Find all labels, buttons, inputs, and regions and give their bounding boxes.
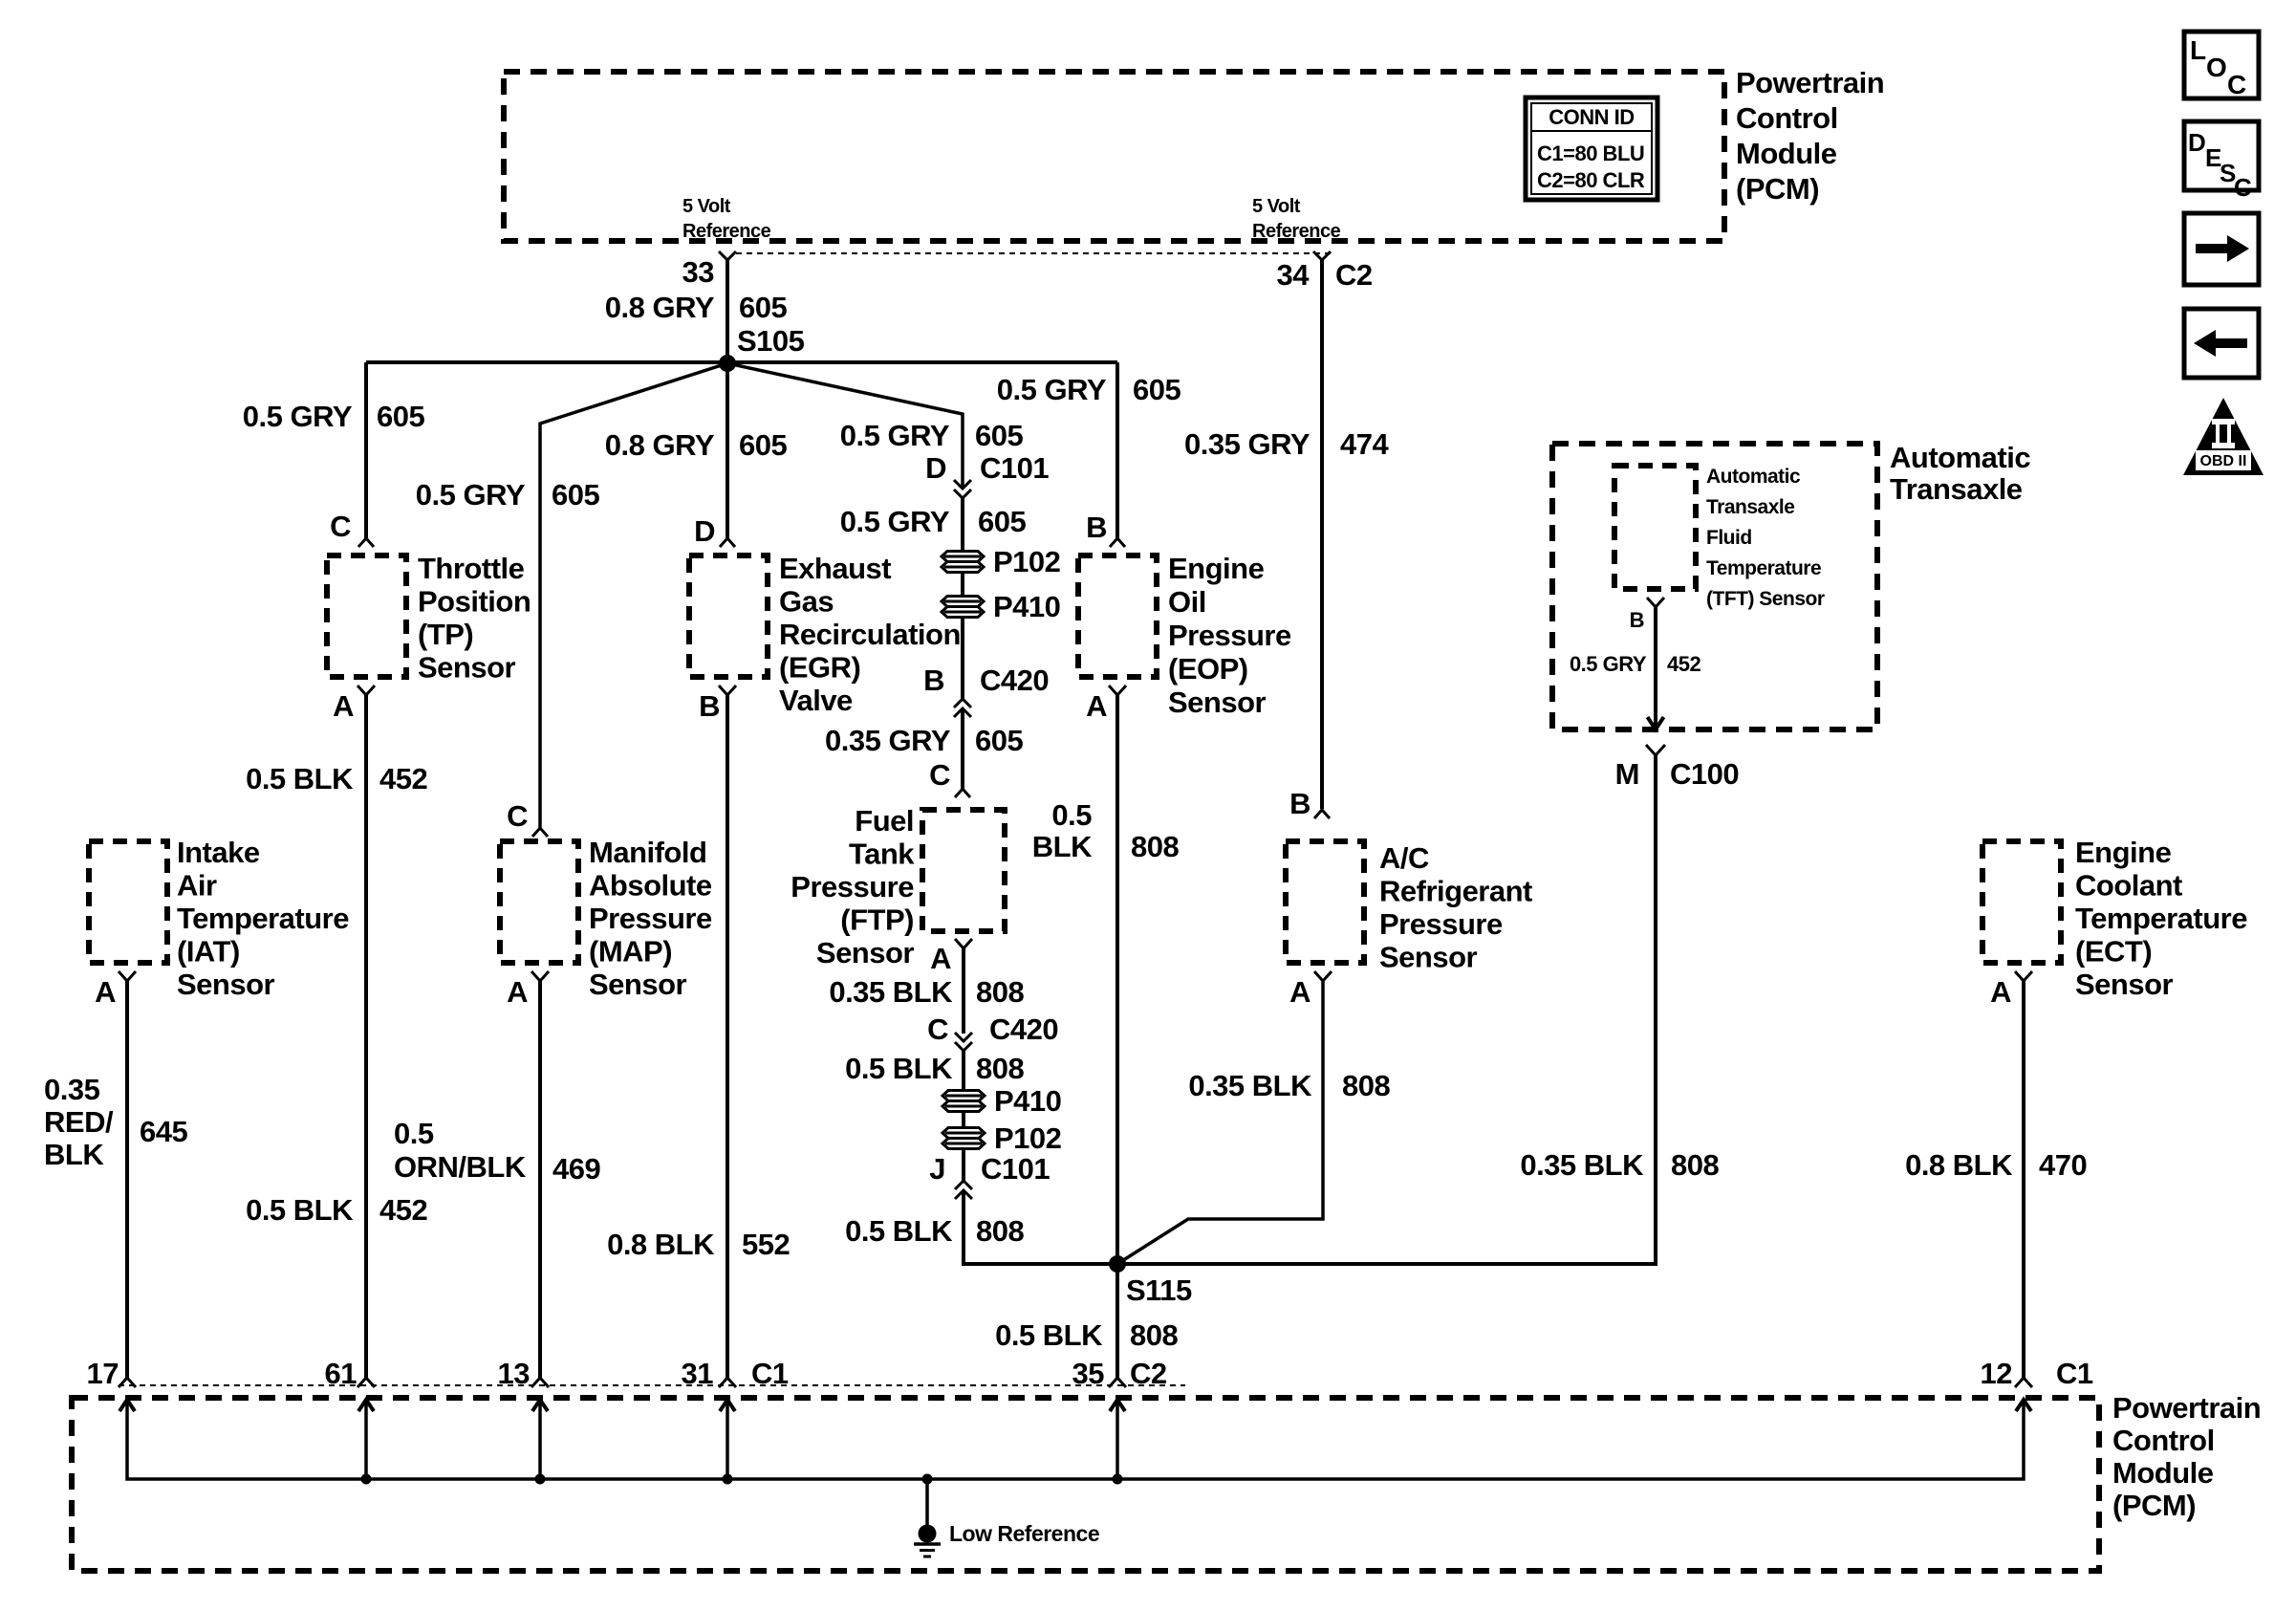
wire P102 to P410	[961, 573, 964, 596]
svg-text:0.5 GRY: 0.5 GRY	[840, 505, 950, 538]
svg-text:Oil: Oil	[1168, 585, 1206, 619]
connector C101 pin D labels	[925, 451, 1049, 485]
svg-text:0.8 BLK: 0.8 BLK	[607, 1228, 715, 1261]
svg-text:(PCM): (PCM)	[2112, 1489, 2196, 1522]
svg-text:Absolute: Absolute	[589, 869, 712, 903]
svg-text:Temperature: Temperature	[177, 902, 349, 935]
svg-text:A: A	[333, 689, 354, 723]
wire 605 S105 horizontal bus	[366, 360, 1117, 364]
svg-text:O: O	[2206, 53, 2226, 82]
svg-text:0.5 BLK: 0.5 BLK	[246, 762, 354, 795]
svg-text:Reference: Reference	[1252, 221, 1341, 242]
svg-text:C: C	[330, 510, 351, 543]
svg-text:D: D	[2188, 128, 2205, 157]
sensor EOP: Engine Oil Pressure Sensor	[1078, 511, 1291, 723]
svg-text:452: 452	[379, 762, 427, 795]
svg-text:B: B	[923, 664, 944, 697]
pin 61 connector fork	[357, 1378, 375, 1387]
svg-text:Air: Air	[177, 869, 217, 903]
svg-text:605: 605	[377, 400, 424, 433]
svg-text:Powertrain: Powertrain	[2112, 1391, 2261, 1425]
svg-text:(FTP): (FTP)	[840, 903, 914, 937]
connector C101 pin J chevrons	[955, 1181, 972, 1199]
svg-text:CONN ID: CONN ID	[1549, 105, 1634, 129]
svg-text:808: 808	[976, 1214, 1024, 1248]
svg-text:Sensor: Sensor	[177, 968, 275, 1001]
ground stub wire	[925, 1479, 929, 1525]
sensor EGR: Exhaust Gas Recirculation Valve	[689, 514, 961, 723]
svg-text:61: 61	[325, 1357, 357, 1390]
pin 12 connector fork	[2015, 1378, 2032, 1387]
svg-text:B: B	[699, 689, 720, 723]
svg-text:Sensor: Sensor	[2075, 968, 2174, 1001]
svg-text:Exhaust: Exhaust	[779, 552, 891, 585]
bottom connector thin dashed line	[119, 1384, 1185, 1386]
wire 808 0.35 BLK S115 to A/C sensor A	[1117, 981, 1390, 1264]
svg-text:C2: C2	[1335, 258, 1373, 292]
svg-text:A: A	[930, 942, 951, 975]
svg-text:OBD II: OBD II	[2200, 453, 2247, 469]
svg-text:0.35 BLK: 0.35 BLK	[1520, 1148, 1644, 1182]
wire 808 0.35 BLK FTP-A to C420	[829, 948, 1024, 1034]
sensor AC: A/C Refrigerant Pressure Sensor	[1286, 787, 1532, 1009]
wire 605 0.5 GRY S105 to MAP sensor	[416, 363, 727, 828]
PCM input arrow pin 13	[532, 1400, 548, 1411]
svg-text:469: 469	[552, 1152, 600, 1186]
icon arrow left	[2184, 309, 2259, 378]
svg-text:L: L	[2190, 35, 2206, 65]
svg-text:C420: C420	[989, 1012, 1058, 1046]
svg-text:13: 13	[498, 1357, 531, 1390]
svg-text:Control: Control	[1736, 101, 1838, 135]
label: 5 Volt Reference (left)	[682, 196, 771, 242]
connector C100 pin M	[1615, 745, 1739, 791]
wire 605 0.8 GRY pin33 to S105	[605, 260, 788, 363]
svg-text:BLK: BLK	[44, 1138, 104, 1171]
svg-text:Pressure: Pressure	[791, 870, 914, 903]
wire P410 to P102 (ground side)	[962, 1112, 965, 1127]
svg-text:Automatic: Automatic	[1706, 466, 1801, 488]
svg-text:(EGR): (EGR)	[779, 651, 860, 685]
wire 474 0.35 GRY pin34 to A/C sensor	[1184, 260, 1389, 809]
svg-text:C: C	[929, 758, 950, 792]
svg-text:Tank: Tank	[849, 838, 915, 871]
svg-text:Sensor: Sensor	[418, 651, 516, 685]
svg-text:33: 33	[682, 255, 715, 289]
pin 31 labels	[682, 1357, 789, 1390]
wire 808 0.5 BLK C420 to P410	[845, 1051, 1024, 1090]
ground symbol Low Reference	[914, 1521, 1099, 1557]
svg-text:Pressure: Pressure	[1168, 619, 1291, 652]
pin 34 labels	[1277, 258, 1373, 292]
svg-text:Coolant: Coolant	[2075, 869, 2182, 903]
svg-text:C: C	[2234, 173, 2252, 202]
svg-text:A: A	[507, 975, 528, 1009]
Automatic Transaxle outer dashed box	[1552, 441, 2030, 729]
connector C420 pin C chevrons	[955, 1033, 972, 1051]
svg-text:BLK: BLK	[1032, 830, 1093, 863]
svg-text:Reference: Reference	[682, 221, 771, 242]
svg-text:5 Volt: 5 Volt	[1252, 196, 1301, 217]
svg-text:S105: S105	[737, 324, 805, 358]
inline connector P102 (ground side)	[942, 1121, 1061, 1155]
wire pin 13 to bus	[538, 1400, 542, 1479]
svg-text:Sensor: Sensor	[1379, 941, 1478, 974]
svg-text:(MAP): (MAP)	[589, 935, 672, 969]
svg-text:808: 808	[1671, 1148, 1719, 1182]
internal low reference bus	[127, 1400, 2024, 1479]
pin 31 connector fork	[719, 1378, 736, 1387]
wire 808 0.5 BLK S115 to pin 35	[995, 1264, 1178, 1378]
icon DESC	[2184, 121, 2259, 202]
sensor IAT: Intake Air Temperature Sensor	[89, 836, 349, 1009]
PCM top dashed box	[504, 72, 1724, 241]
svg-text:Transaxle: Transaxle	[1706, 496, 1794, 518]
svg-text:0.5 GRY: 0.5 GRY	[997, 373, 1107, 406]
pin 34 connector fork	[1313, 251, 1331, 260]
svg-text:808: 808	[1131, 830, 1179, 863]
PCM input arrow pin 17	[119, 1400, 135, 1411]
pin 35 connector fork	[1109, 1378, 1126, 1387]
svg-text:ORN/BLK: ORN/BLK	[394, 1150, 527, 1184]
svg-text:C: C	[507, 799, 528, 833]
wire 808 0.5 BLK C101 to S115	[845, 1190, 1117, 1264]
pin 35 labels	[1072, 1357, 1167, 1390]
svg-text:C2: C2	[1130, 1357, 1167, 1390]
svg-text:0.5 GRY: 0.5 GRY	[840, 419, 950, 452]
svg-text:Pressure: Pressure	[1379, 907, 1503, 941]
svg-text:452: 452	[1667, 652, 1700, 676]
svg-text:34: 34	[1277, 258, 1310, 292]
icon LOC	[2184, 32, 2259, 99]
svg-text:Transaxle: Transaxle	[1890, 472, 2023, 506]
svg-text:605: 605	[978, 505, 1026, 538]
svg-text:C: C	[927, 1012, 948, 1046]
svg-text:A: A	[1086, 689, 1107, 723]
wire 552 0.8 BLK EGR-B to pin 31	[607, 695, 790, 1378]
wire 605 0.35 GRY C420 to FTP sensor	[825, 708, 1023, 789]
svg-text:C101: C101	[980, 451, 1049, 485]
svg-text:(TP): (TP)	[418, 618, 473, 651]
svg-text:RED/: RED/	[44, 1105, 114, 1139]
svg-text:0.5 GRY: 0.5 GRY	[416, 478, 526, 512]
svg-text:Throttle: Throttle	[418, 552, 525, 585]
sensor TFT: Automatic Transaxle Fluid Temperature Sensor inner box	[1614, 466, 1825, 632]
svg-text:605: 605	[552, 478, 599, 512]
svg-text:0.8 BLK: 0.8 BLK	[1905, 1148, 2013, 1182]
svg-text:Low Reference: Low Reference	[949, 1521, 1099, 1546]
splice S115	[1109, 1255, 1192, 1307]
svg-text:0.8 GRY: 0.8 GRY	[605, 291, 715, 324]
svg-text:808: 808	[976, 1052, 1024, 1085]
svg-text:A: A	[95, 975, 116, 1009]
svg-text:(IAT): (IAT)	[177, 935, 240, 969]
wire 605 0.8 GRY S105 to EGR valve	[605, 363, 788, 538]
svg-text:Sensor: Sensor	[589, 968, 687, 1001]
svg-text:Valve: Valve	[779, 684, 853, 717]
svg-text:35: 35	[1072, 1357, 1105, 1390]
svg-text:(PCM): (PCM)	[1736, 172, 1819, 206]
svg-text:C101: C101	[981, 1152, 1050, 1186]
wire 452 0.5 BLK TP-A to pin 61	[246, 695, 427, 1378]
svg-text:605: 605	[975, 419, 1023, 452]
svg-text:552: 552	[742, 1228, 790, 1261]
svg-text:P410: P410	[994, 1084, 1061, 1118]
pin 13 connector fork	[531, 1378, 549, 1387]
svg-text:Position: Position	[418, 585, 531, 619]
svg-text:(ECT): (ECT)	[2075, 935, 2152, 969]
svg-text:0.5 BLK: 0.5 BLK	[246, 1193, 354, 1227]
svg-text:Intake: Intake	[177, 836, 260, 869]
svg-text:P410: P410	[993, 590, 1060, 623]
svg-text:D: D	[694, 514, 715, 548]
wire pin 35 to bus	[1116, 1400, 1119, 1479]
svg-text:0.5 BLK: 0.5 BLK	[995, 1318, 1103, 1352]
svg-text:C: C	[2227, 70, 2246, 99]
label: Powertrain Control Module (PCM) top	[1736, 66, 1884, 206]
PCM input arrow pin 61	[358, 1400, 374, 1411]
junction dot ground tap	[922, 1474, 933, 1485]
wire P410 to C420	[961, 618, 964, 699]
svg-text:Engine: Engine	[1168, 552, 1265, 585]
svg-text:M: M	[1615, 757, 1639, 791]
icon arrow right	[2184, 213, 2259, 285]
svg-text:J: J	[929, 1152, 945, 1186]
sensor FTP: Fuel Tank Pressure Sensor	[791, 804, 1005, 975]
svg-text:605: 605	[975, 724, 1023, 757]
junction dot pin 31 bus	[723, 1474, 733, 1485]
svg-text:(TFT) Sensor: (TFT) Sensor	[1706, 588, 1825, 610]
svg-text:0.35 BLK: 0.35 BLK	[829, 975, 953, 1009]
svg-text:808: 808	[1342, 1069, 1390, 1102]
wire 469 0.5 ORN/BLK MAP-A to pin 13	[394, 981, 600, 1378]
svg-text:Temperature: Temperature	[1706, 557, 1821, 579]
svg-text:0.5: 0.5	[1051, 798, 1092, 832]
svg-text:Manifold: Manifold	[589, 836, 706, 869]
svg-text:Recirculation: Recirculation	[779, 618, 961, 651]
svg-text:Refrigerant: Refrigerant	[1379, 875, 1532, 908]
svg-text:31: 31	[682, 1357, 714, 1390]
svg-text:A/C: A/C	[1379, 841, 1429, 875]
wire 605 0.5 GRY S105 to EOP sensor	[997, 362, 1181, 538]
FTP sensor pin C	[929, 758, 970, 797]
pin 33 connector fork	[719, 251, 736, 260]
svg-text:12: 12	[1981, 1357, 2012, 1390]
svg-text:645: 645	[140, 1115, 187, 1148]
svg-text:0.35 GRY: 0.35 GRY	[825, 724, 951, 757]
wire 452 0.5 GRY TFT-B to C100	[1570, 607, 1701, 729]
svg-text:B: B	[1086, 511, 1107, 544]
inline connector P102	[942, 545, 1060, 578]
PCM input arrow pin 35	[1110, 1400, 1125, 1411]
wire 808 0.35 BLK S115 to C100 M	[1117, 755, 1719, 1264]
svg-text:Temperature: Temperature	[2075, 902, 2247, 935]
inline connector P410	[942, 590, 1060, 623]
svg-text:C1: C1	[751, 1357, 789, 1390]
svg-text:0.8 GRY: 0.8 GRY	[605, 428, 715, 462]
svg-text:0.5 GRY: 0.5 GRY	[243, 400, 353, 433]
svg-text:0.35 GRY: 0.35 GRY	[1184, 427, 1310, 461]
inline connector P410 (ground side)	[942, 1084, 1061, 1118]
connector C420 pin B labels	[923, 664, 1049, 697]
splice S105	[719, 324, 805, 372]
connector C101 pin D chevrons	[954, 480, 971, 498]
wire 645 0.35 RED/BLK IAT-A to pin 17	[44, 981, 187, 1378]
svg-text:Module: Module	[2112, 1456, 2214, 1490]
svg-text:Gas: Gas	[779, 585, 834, 619]
svg-text:474: 474	[1340, 427, 1389, 461]
svg-text:452: 452	[379, 1193, 427, 1227]
svg-text:5 Volt: 5 Volt	[682, 196, 731, 217]
sensor TP: Throttle Position Sensor	[327, 510, 531, 723]
wire pin 31 to bus	[726, 1400, 729, 1479]
svg-text:605: 605	[1133, 373, 1180, 406]
svg-text:808: 808	[1130, 1318, 1178, 1352]
svg-text:A: A	[1289, 975, 1310, 1009]
svg-text:Fuel: Fuel	[855, 804, 914, 838]
wire 605 0.5 GRY S105 to TP sensor	[243, 362, 425, 538]
svg-text:B: B	[1289, 787, 1310, 820]
svg-text:Automatic: Automatic	[1890, 441, 2030, 474]
svg-text:0.35: 0.35	[44, 1073, 100, 1106]
svg-text:0.5 BLK: 0.5 BLK	[845, 1214, 953, 1248]
svg-text:D: D	[925, 451, 946, 485]
pin 12 labels	[1981, 1357, 2093, 1390]
svg-text:C1=80 BLU: C1=80 BLU	[1537, 142, 1644, 165]
connector C420 pin C labels	[927, 1012, 1058, 1046]
junction dot pin 13 bus	[535, 1474, 546, 1485]
svg-text:C1: C1	[2056, 1357, 2093, 1390]
pin 17 connector fork	[119, 1378, 136, 1387]
svg-text:0.5 GRY: 0.5 GRY	[1570, 652, 1647, 676]
svg-text:Control: Control	[2112, 1424, 2215, 1457]
svg-text:Sensor: Sensor	[816, 936, 915, 969]
svg-text:C2=80 CLR: C2=80 CLR	[1537, 168, 1645, 192]
label: 5 Volt Reference (right)	[1252, 196, 1341, 242]
svg-text:C420: C420	[980, 664, 1049, 697]
sensor ECT: Engine Coolant Temperature Sensor	[1982, 836, 2247, 1009]
wire 808 0.5 BLK EOP-A to S115	[1032, 695, 1180, 1264]
svg-text:605: 605	[739, 291, 787, 324]
svg-text:A: A	[1990, 975, 2011, 1009]
PCM bottom dashed box	[72, 1398, 2099, 1571]
sensor MAP: Manifold Absolute Pressure Sensor	[500, 799, 712, 1009]
wire 470 0.8 BLK ECT-A to pin 12	[1905, 981, 2087, 1378]
wire pin 61 to bus	[364, 1400, 368, 1479]
svg-text:Sensor: Sensor	[1168, 686, 1267, 719]
svg-text:Pressure: Pressure	[589, 902, 712, 935]
svg-text:Engine: Engine	[2075, 836, 2172, 869]
junction dot pin 35 bus	[1113, 1474, 1123, 1485]
svg-text:P102: P102	[993, 545, 1060, 578]
svg-text:P102: P102	[994, 1121, 1061, 1155]
svg-text:0.35 BLK: 0.35 BLK	[1188, 1069, 1312, 1102]
svg-text:17: 17	[87, 1357, 119, 1390]
svg-text:470: 470	[2039, 1148, 2087, 1182]
wire 605 0.5 GRY S105 to C101	[727, 363, 1023, 488]
svg-text:Module: Module	[1736, 137, 1837, 170]
wire 605 0.5 GRY C101 to P102	[840, 498, 1027, 551]
connector C420 pin B chevrons	[954, 699, 971, 717]
icon OBD II triangle	[2183, 398, 2264, 475]
PCM input arrow pin 31	[720, 1400, 735, 1411]
top connector thin dashed line	[736, 252, 1331, 254]
label: Powertrain Control Module (PCM) bottom	[2112, 1391, 2261, 1522]
PCM input arrow pin 12	[2016, 1400, 2031, 1411]
svg-text:605: 605	[739, 428, 787, 462]
junction dot pin 61 bus	[361, 1474, 372, 1485]
CONN ID table	[1526, 98, 1657, 200]
svg-text:808: 808	[976, 975, 1024, 1009]
svg-text:C100: C100	[1670, 757, 1739, 791]
svg-text:0.5: 0.5	[394, 1117, 434, 1150]
svg-text:S115: S115	[1126, 1274, 1192, 1307]
connector C101 pin J labels	[929, 1149, 1050, 1186]
svg-text:0.5 BLK: 0.5 BLK	[845, 1052, 953, 1085]
svg-text:(EOP): (EOP)	[1168, 652, 1248, 686]
svg-text:Powertrain: Powertrain	[1736, 66, 1884, 99]
svg-text:Fluid: Fluid	[1706, 527, 1752, 549]
svg-text:B: B	[1630, 608, 1644, 632]
